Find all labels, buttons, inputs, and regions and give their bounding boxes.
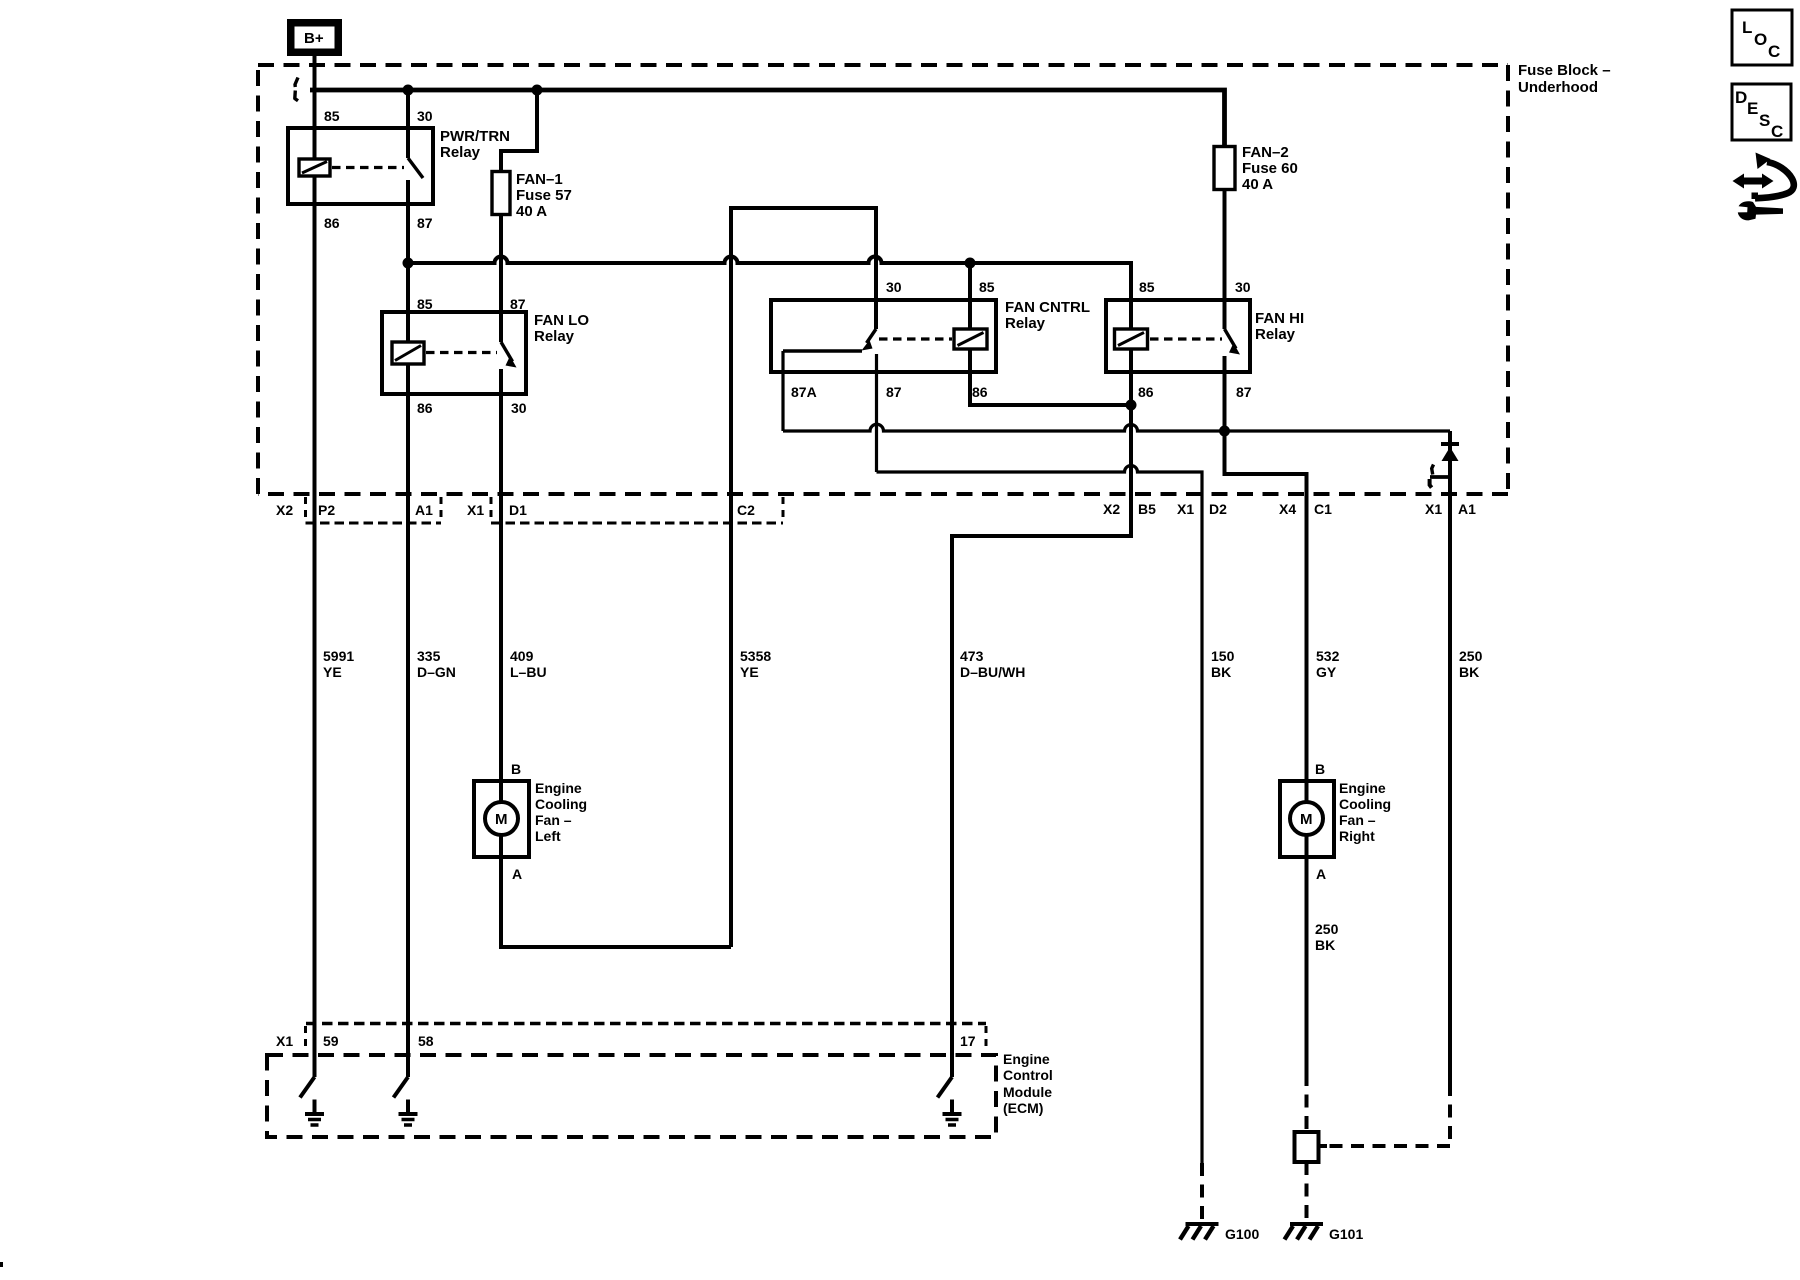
svg-text:532: 532: [1316, 648, 1340, 664]
svg-text:G101: G101: [1329, 1226, 1363, 1242]
fuse FAN-2 Fuse 60 40 A: [1214, 147, 1235, 190]
wire left fan motor A down and loop right up to C2 (5358 YE): [501, 834, 731, 947]
ECM internal driver switch and ground for pin 17: [938, 1025, 962, 1125]
wire bus tap down and left into FAN-1 fuse: [501, 88, 537, 172]
svg-text:Engine: Engine: [535, 780, 582, 796]
ECM internal driver switch and ground for pin 59: [300, 1025, 324, 1125]
svg-text:M: M: [495, 811, 508, 828]
svg-text:87: 87: [1236, 384, 1252, 400]
svg-text:59: 59: [323, 1033, 339, 1049]
wire label 250 BK below right fan: [1315, 921, 1339, 953]
svg-text:BK: BK: [1211, 664, 1231, 680]
svg-text:Module: Module: [1003, 1084, 1052, 1100]
wire label 150 BK: [1211, 648, 1235, 680]
svg-text:X1: X1: [1177, 501, 1194, 517]
coil-switch dashed link PWR/TRN: [332, 166, 404, 169]
svg-text:D: D: [1735, 88, 1747, 107]
relay FAN CNTRL box: [771, 300, 996, 372]
svg-text:P2: P2: [318, 502, 335, 518]
relay FAN HI box: [1106, 300, 1250, 372]
junction dot mid bus at PWR/TRN 87 / FAN LO 85: [403, 258, 414, 269]
label FAN HI Relay: [1255, 310, 1304, 343]
ECM internal driver switch and ground for pin 58: [394, 1025, 418, 1125]
wire PWR/TRN pin 86 down to ECM pin 59 (circuit 5991 YE): [313, 176, 317, 1023]
svg-text:Right: Right: [1339, 828, 1375, 844]
diagnostic navigation icon curved arrow: [1752, 153, 1794, 200]
svg-text:Fuse 57: Fuse 57: [516, 187, 572, 204]
coil FAN HI: [1115, 329, 1148, 349]
svg-text:Control: Control: [1003, 1067, 1053, 1083]
LOC reference box icon: [1732, 10, 1792, 65]
svg-text:D1: D1: [509, 502, 527, 518]
label Engine Control Module (ECM): [1003, 1051, 1053, 1116]
svg-text:Relay: Relay: [534, 328, 575, 345]
svg-text:86: 86: [324, 215, 340, 231]
fuse block - underhood dashed boundary box: [258, 65, 1508, 494]
svg-text:FAN CNTRL: FAN CNTRL: [1005, 299, 1090, 316]
label Fuse Block - Underhood: [1518, 62, 1611, 96]
svg-text:X1: X1: [276, 1033, 293, 1049]
svg-text:250: 250: [1459, 648, 1483, 664]
wire FAN HI 87 junction down to A1 and splice, solid then dashed 250 BK: [1326, 431, 1450, 1146]
svg-text:86: 86: [1138, 384, 1154, 400]
ECM connector dotted line X1: [306, 1022, 986, 1026]
wire label 335 D-GN: [417, 648, 456, 680]
wire PWR/TRN pin 87 down through mid-bus dot into FAN LO pin 85 coil: [406, 180, 410, 342]
wire main B+ bus across top, turning down to FAN-2 fuse: [310, 90, 1225, 147]
svg-text:C: C: [1768, 42, 1780, 61]
inline splice connector square on 250 BK: [1295, 1132, 1328, 1162]
svg-text:30: 30: [511, 400, 527, 416]
svg-text:30: 30: [1235, 279, 1251, 295]
switch FAN LO arm with arrowhead: [501, 342, 517, 368]
svg-text:Relay: Relay: [440, 144, 481, 161]
wire label 409 L-BU: [510, 648, 547, 680]
svg-text:YE: YE: [740, 664, 759, 680]
label FAN CNTRL Relay: [1005, 299, 1090, 332]
wire FAN CNTRL pin 86 to junction with FAN HI pin 86: [970, 349, 1131, 405]
motor M1 circle with M: [485, 802, 518, 835]
svg-text:87A: 87A: [791, 384, 817, 400]
svg-text:X1: X1: [467, 502, 484, 518]
contact bar 87A inside FAN CNTRL: [783, 349, 862, 352]
svg-text:Relay: Relay: [1255, 326, 1296, 343]
svg-text:85: 85: [417, 296, 433, 312]
svg-text:BK: BK: [1459, 664, 1479, 680]
ground G100 chassis symbol: [1180, 1224, 1219, 1240]
svg-text:86: 86: [972, 384, 988, 400]
relay PWR/TRN box: [288, 128, 433, 204]
svg-text:250: 250: [1315, 921, 1339, 937]
switch FAN HI arm with arrowhead: [1225, 329, 1241, 355]
wire label 473 D-BU/WH: [960, 648, 1025, 680]
wire FAN HI pin 86 down through B5, jog left, down to ECM 17 (473 D-BU/WH): [952, 349, 1131, 1023]
relay FAN LO box: [382, 312, 526, 394]
svg-text:B+: B+: [304, 30, 324, 47]
battery feed B+ terminal box: [287, 19, 342, 56]
fuse FAN-1 Fuse 57 40 A: [492, 172, 510, 215]
splice terminal triangle symbol on 250 BK at fuse block exit: [1441, 444, 1459, 461]
svg-text:FAN LO: FAN LO: [534, 312, 589, 329]
svg-text:Underhood: Underhood: [1518, 79, 1598, 96]
wire label 250 BK at A1: [1459, 648, 1483, 680]
svg-text:S: S: [1759, 111, 1770, 130]
svg-text:E: E: [1747, 99, 1758, 118]
wire C2 riser up over mid bus then right to FAN CNTRL pin 30: [731, 208, 876, 947]
wire B+ down to PWR/TRN relay pin 85: [313, 56, 317, 160]
svg-text:A: A: [512, 866, 522, 882]
svg-text:473: 473: [960, 648, 984, 664]
svg-text:40 A: 40 A: [516, 203, 547, 220]
svg-text:Engine: Engine: [1339, 780, 1386, 796]
svg-text:O: O: [1754, 30, 1767, 49]
connector body dashed outline P2-A1: [306, 497, 442, 523]
wire FAN LO pin 30 down through D1 to left fan motor B (circuit 409 L-BU): [499, 369, 503, 803]
svg-text:409: 409: [510, 648, 534, 664]
diagnostic navigation icon double arrow: [1733, 174, 1774, 189]
wire FAN-2 fuse output down to FAN HI pin 30: [1223, 190, 1227, 330]
wire label 532 GY: [1316, 648, 1340, 680]
svg-text:Cooling: Cooling: [535, 796, 587, 812]
svg-text:87: 87: [886, 384, 902, 400]
svg-text:85: 85: [1139, 279, 1155, 295]
diagnostic wrench icon: [1738, 201, 1783, 220]
svg-text:GY: GY: [1316, 664, 1337, 680]
svg-text:Relay: Relay: [1005, 315, 1046, 332]
svg-text:30: 30: [886, 279, 902, 295]
svg-text:Fuse Block –: Fuse Block –: [1518, 62, 1611, 79]
wire FAN LO pin 86 down to ECM pin 58 (circuit 335 D-GN): [406, 364, 410, 1023]
label PWR/TRN Relay: [440, 128, 510, 161]
svg-text:D–BU/WH: D–BU/WH: [960, 664, 1025, 680]
ground G101 chassis symbol: [1285, 1224, 1324, 1240]
switch FAN CNTRL arm with arrowhead toward 87A: [862, 329, 877, 351]
coil-switch dashed link FAN CNTRL: [879, 337, 952, 340]
ECM connector end tick left: [304, 1026, 307, 1048]
wire label 5358 YE: [740, 648, 771, 680]
svg-text:G100: G100: [1225, 1226, 1259, 1242]
svg-text:L: L: [1742, 18, 1752, 37]
motor M1 engine cooling fan left box: [474, 781, 529, 857]
coil-switch dashed link FAN HI: [1150, 337, 1222, 340]
svg-text:X2: X2: [276, 502, 293, 518]
continuation hook symbol at left end of B+ bus: [295, 78, 298, 101]
label Engine Cooling Fan - Left: [535, 780, 587, 844]
ECM connector end tick right: [985, 1026, 988, 1048]
svg-text:FAN–1: FAN–1: [516, 171, 563, 188]
svg-text:5358: 5358: [740, 648, 771, 664]
svg-text:C2: C2: [737, 502, 755, 518]
svg-text:FAN HI: FAN HI: [1255, 310, 1304, 327]
continuation hook symbol on 250 BK wire at X1 A1: [1430, 465, 1451, 488]
svg-text:C1: C1: [1314, 501, 1332, 517]
svg-text:X4: X4: [1279, 501, 1296, 517]
svg-text:Fan –: Fan –: [535, 812, 572, 828]
svg-text:150: 150: [1211, 648, 1235, 664]
svg-text:87: 87: [417, 215, 433, 231]
wire label 5991 YE: [323, 648, 354, 680]
wire dashed G101 below splice: [1305, 1162, 1309, 1222]
motor M2 engine cooling fan right box: [1280, 781, 1334, 857]
coil FAN LO: [392, 342, 424, 364]
svg-text:D2: D2: [1209, 501, 1227, 517]
svg-text:Cooling: Cooling: [1339, 796, 1391, 812]
svg-text:40 A: 40 A: [1242, 176, 1273, 193]
svg-text:(ECM): (ECM): [1003, 1100, 1043, 1116]
svg-text:M: M: [1300, 811, 1313, 828]
svg-text:Fan –: Fan –: [1339, 812, 1376, 828]
junction dot at PWR/TRN pin 30 tap: [403, 85, 414, 96]
svg-text:86: 86: [417, 400, 433, 416]
svg-text:FAN–2: FAN–2: [1242, 144, 1289, 161]
wire FAN CNTRL pin 85 from mid bus to coil: [968, 263, 972, 329]
wire FAN-1 fuse output down across mid bus (hop) to FAN LO pin 87: [499, 215, 503, 343]
ECM dashed boundary box: [267, 1055, 996, 1137]
junction dot 87A line at FAN HI pin 87: [1219, 426, 1230, 437]
svg-text:B: B: [511, 761, 521, 777]
svg-text:Fuse 60: Fuse 60: [1242, 160, 1298, 177]
svg-text:58: 58: [418, 1033, 434, 1049]
DESC reference box icon: [1732, 84, 1791, 141]
svg-text:B5: B5: [1138, 501, 1156, 517]
label Engine Cooling Fan - Right: [1339, 780, 1391, 844]
wire right fan motor A down to splice, solid then dashed (250 BK): [1305, 834, 1309, 1132]
svg-text:X2: X2: [1103, 501, 1120, 517]
svg-text:PWR/TRN: PWR/TRN: [440, 128, 510, 145]
page corner mark bottom left: [0, 1262, 3, 1267]
junction dot at FAN-1 fuse tap: [532, 85, 543, 96]
junction dot mid bus at FAN CNTRL pin 85: [965, 258, 976, 269]
svg-text:335: 335: [417, 648, 441, 664]
svg-text:Engine: Engine: [1003, 1051, 1050, 1067]
svg-text:85: 85: [324, 108, 340, 124]
svg-text:A1: A1: [415, 502, 433, 518]
junction dot FAN CNTRL 86 / FAN HI 86: [1126, 400, 1137, 411]
svg-text:C: C: [1771, 122, 1783, 141]
svg-text:17: 17: [960, 1033, 976, 1049]
svg-text:85: 85: [979, 279, 995, 295]
switch PWR/TRN pin30 stub and arm: [408, 92, 423, 178]
coil PWR/TRN: [299, 159, 330, 176]
svg-text:X1: X1: [1425, 501, 1442, 517]
label FAN-1 Fuse 57 40 A: [516, 171, 572, 220]
wire FAN CNTRL pin 87 down and right (hop) to D2, 150 BK: [877, 354, 1203, 1222]
svg-text:30: 30: [417, 108, 433, 124]
svg-text:Left: Left: [535, 828, 561, 844]
label FAN-2 Fuse 60 40 A: [1242, 144, 1298, 193]
svg-text:87: 87: [510, 296, 526, 312]
coil-switch dashed link FAN LO: [426, 351, 497, 354]
motor M2 circle with M: [1290, 802, 1323, 835]
svg-text:L–BU: L–BU: [510, 664, 547, 680]
svg-text:A: A: [1316, 866, 1326, 882]
svg-text:5991: 5991: [323, 648, 354, 664]
svg-text:BK: BK: [1315, 937, 1335, 953]
connector body dashed outline D1-C2: [491, 497, 783, 523]
svg-text:D–GN: D–GN: [417, 664, 456, 680]
svg-text:YE: YE: [323, 664, 342, 680]
svg-text:A1: A1: [1458, 501, 1476, 517]
wire FAN HI pin 87 down, jog right to C1, down to right fan motor B (532 GY): [1225, 356, 1307, 803]
wire mid distribution bus with hops, to FAN HI pin 85 coil: [408, 257, 1131, 330]
svg-text:B: B: [1315, 761, 1325, 777]
wire FAN CNTRL pin 87A across (hops) to right side circuit 250 BK: [783, 351, 1450, 431]
label FAN LO Relay: [534, 312, 589, 345]
coil FAN CNTRL: [954, 329, 987, 349]
